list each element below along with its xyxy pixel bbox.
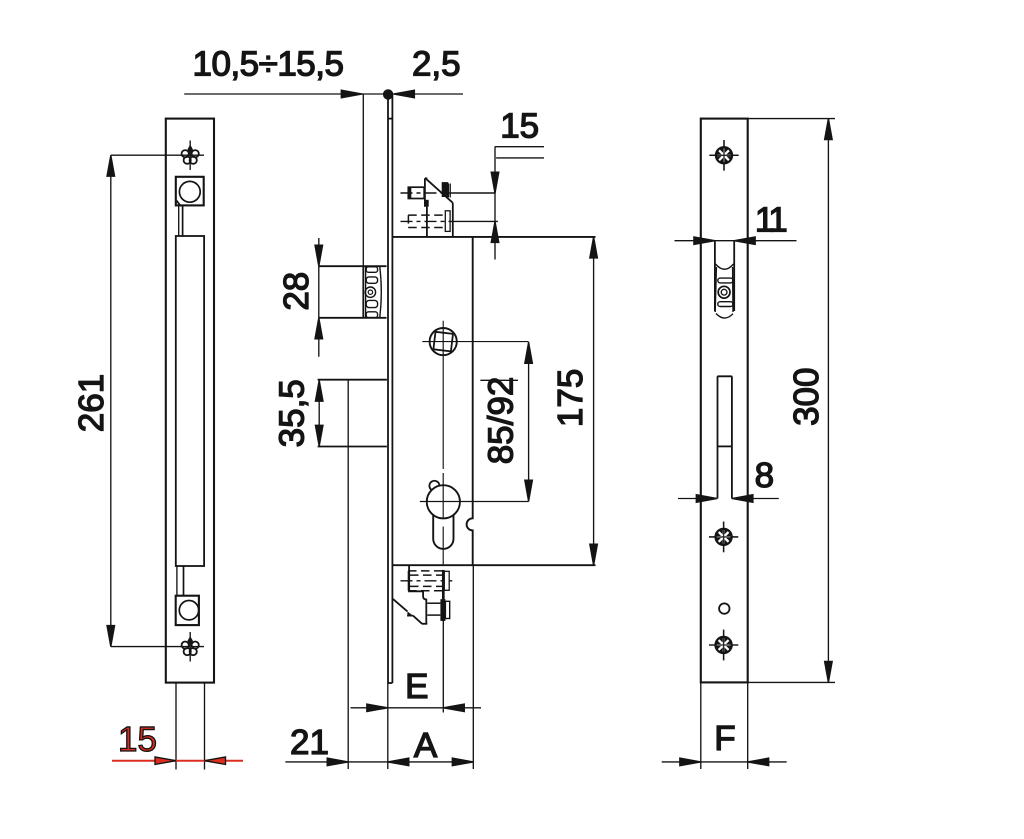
bottom bolt face bar — [442, 570, 445, 621]
right middle screw — [709, 522, 738, 553]
left view bottom screw — [182, 632, 199, 662]
dimension F extensions — [701, 682, 748, 769]
follower crosshair — [422, 321, 528, 565]
dimension 261 — [107, 155, 204, 646]
dimension 35,5 — [315, 380, 323, 446]
faceplate edge view — [388, 95, 392, 683]
svg-text:35,5: 35,5 — [273, 379, 312, 447]
bottom hidden bolt cap — [408, 571, 410, 591]
small hole — [719, 603, 729, 613]
svg-text:F: F — [714, 719, 735, 758]
svg-text:A: A — [414, 726, 438, 765]
svg-text:28: 28 — [277, 272, 316, 311]
dimension 8 — [678, 495, 779, 503]
svg-text:21: 21 — [290, 723, 329, 762]
top hidden bolt centerline — [401, 220, 498, 222]
bottom bolt washer — [445, 601, 449, 618]
top latch centerline — [401, 192, 495, 194]
E extension line — [442, 621, 444, 713]
deadbolt block 35,5 — [318, 380, 387, 447]
red dimension 15 extension lines — [176, 683, 205, 770]
euro cylinder hole — [429, 481, 439, 490]
dimension E — [351, 704, 482, 712]
lock body outline — [392, 237, 595, 565]
top latch pin head — [408, 187, 424, 198]
follower (square spindle hole) — [430, 328, 457, 355]
svg-text:261: 261 — [72, 374, 111, 432]
svg-text:2,5: 2,5 — [412, 45, 461, 84]
left view sliding rod — [176, 236, 204, 566]
bottom hidden bolt centerline — [401, 580, 453, 582]
svg-text:85/92: 85/92 — [481, 377, 520, 465]
left view top roller housing — [176, 177, 204, 206]
faceplate extension for A — [387, 683, 389, 769]
dimension 10,5-15,5 — [184, 90, 388, 266]
dimension 11 — [675, 237, 797, 245]
dimension 15 top — [491, 147, 544, 260]
left view top link channel — [179, 205, 183, 236]
svg-text:10,5÷15,5: 10,5÷15,5 — [193, 45, 344, 84]
bottom hidden bolt washer — [444, 571, 449, 590]
svg-text:8: 8 — [755, 456, 774, 495]
dimension 175 — [590, 237, 598, 565]
roller block inner detail — [365, 267, 381, 318]
top bolt pin plate — [445, 211, 450, 232]
roller block 28 — [319, 266, 387, 318]
bottom bolt pin — [427, 603, 440, 615]
svg-text:E: E — [405, 667, 428, 706]
top hidden bolt (dashed) — [408, 215, 445, 227]
top latch bolt — [425, 178, 453, 237]
dimension 2,5 — [393, 90, 463, 98]
bottom bolt flange — [440, 599, 445, 621]
svg-text:11: 11 — [755, 201, 786, 240]
left view outer plate — [166, 119, 214, 683]
dimension 2,5 dot — [383, 89, 393, 99]
body edge extension for A — [472, 565, 474, 769]
deadbolt block left edge + extension for 21 — [347, 380, 349, 769]
svg-text:175: 175 — [551, 369, 590, 427]
dimension F — [662, 758, 787, 766]
red dimension 15 — [112, 760, 243, 762]
svg-text:15: 15 — [500, 106, 539, 145]
svg-text:15: 15 — [118, 720, 157, 759]
left view bottom link channel — [177, 566, 184, 596]
cylinder crosshair / 85-92 lower reference — [420, 501, 529, 503]
right top screw — [709, 140, 738, 171]
dimension 85/92 — [480, 342, 532, 502]
roller front detail — [715, 264, 733, 318]
dimension 21 and A — [285, 758, 473, 766]
svg-text:300: 300 — [787, 367, 826, 425]
dimension 300 — [748, 119, 835, 683]
bottom bracket — [393, 565, 427, 624]
faceplate front view — [701, 119, 748, 683]
slot in faceplate — [718, 376, 732, 498]
dimension 28 — [315, 238, 323, 357]
left view top screw — [182, 141, 199, 171]
left view bottom roller housing — [176, 596, 199, 625]
bottom hidden bolt (dashed) — [408, 571, 442, 591]
roller cutout — [715, 241, 734, 311]
right bottom screw — [709, 630, 738, 661]
